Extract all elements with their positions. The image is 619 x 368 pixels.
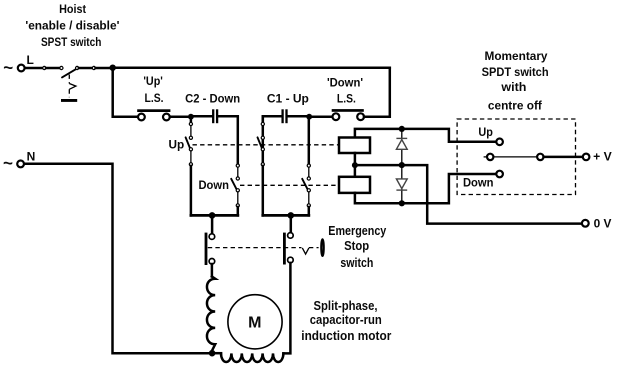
svg-text:SPST switch: SPST switch [41,35,102,49]
svg-text:M: M [248,315,261,332]
svg-text:SPDT switch: SPDT switch [482,65,549,79]
wire C1 cell top left [263,116,282,164]
node E junction under C1 cell [288,212,295,219]
node D junction at C1 top right [306,114,312,120]
wire top L rail [113,66,390,69]
svg-text:Emergency: Emergency [328,224,386,238]
emergency stop dashed linkage [208,248,319,255]
relay coil K2 [339,177,370,193]
wire node A down to Up limit switch [113,68,138,117]
contact K2 Down (right branch of C2 cell) [231,164,239,215]
node G diode top junction [399,126,405,132]
svg-text:C1 - Up: C1 - Up [267,91,309,105]
svg-text:induction motor: induction motor [301,329,391,343]
svg-text:Up: Up [168,138,184,152]
node F junction between coils [352,162,358,168]
wire C1 to node D [288,115,310,118]
svg-text:'Up': 'Up' [143,74,163,88]
wire middle rail to 0V [355,165,582,224]
limit switch 'Down' L.S. [332,109,364,120]
diode D2 [396,165,407,203]
mechanical dashed link Down contacts to coil K2 [240,184,339,186]
svg-text:L: L [27,53,34,67]
wire auxiliary winding to right riser [283,263,290,354]
node I diode bottom junction [399,200,405,206]
svg-text:Momentary: Momentary [485,49,548,63]
svg-text:Down: Down [198,178,229,192]
svg-text:Split-phase,: Split-phase, [314,299,378,313]
emergency stop left contact [205,233,215,265]
svg-text:Hoist: Hoist [59,2,86,16]
SPDT Down contact terminal [496,171,503,178]
inductor auxiliary winding (horizontal) [221,353,283,362]
svg-text:C2 - Down: C2 - Down [185,92,240,106]
wire bottom rail of C1 cell [263,214,309,217]
svg-text:+ V: + V [593,149,612,163]
capacitor C2 [213,109,217,123]
SPDT pole lever [484,154,544,160]
svg-text:switch: switch [340,256,373,270]
wire node J to auxiliary winding [212,352,221,355]
inductor main winding (vertical) [207,277,215,354]
wire node C down to emergency stop left contact [211,215,214,234]
svg-text:~: ~ [3,58,13,77]
contact K2 Down (right branch of C1 cell) [302,117,310,216]
svg-text:'Down': 'Down' [327,76,363,90]
wire Down L.S. up to top rail [364,68,390,117]
label 'Up' L.S. [143,74,163,105]
node +V terminal [583,149,612,163]
SPDT dashed enclosure [457,119,575,195]
S1 anchor bar [61,99,77,102]
svg-text:Up: Up [478,125,493,139]
node C junction under C2 cell [209,212,216,219]
mechanical dashed link Up contacts to coil K1 [193,144,340,146]
svg-text:with: with [500,80,526,94]
node N (neutral terminal) [3,150,35,173]
svg-text:Down: Down [463,176,494,190]
contact K1 Up (left branch of C2 cell) [186,117,193,216]
node A junction on L rail [110,65,116,71]
label Emergency Stop switch [328,224,386,270]
motor M1 circle [228,295,282,349]
wire coil K2 bottom rail to Down feed [355,174,497,203]
capacitor C1 [283,109,287,123]
node H diode middle junction [399,162,405,168]
wire S1 to node A [96,67,113,70]
wire node D to Down limit switch [309,115,332,118]
svg-text:centre off: centre off [488,98,543,112]
switch S1 (hoist enable/disable SPST) [43,66,96,77]
svg-text:N: N [27,150,36,164]
label 'Down' L.S. [327,76,363,106]
S1 actuator dashed link with detent [69,75,76,98]
wire bottom rail of C2 cell [191,214,238,217]
svg-text:Stop: Stop [344,239,369,253]
emergency stop right contact [283,233,293,265]
node J motor bottom junction [209,350,216,357]
svg-text:~: ~ [3,154,13,173]
svg-text:L.S.: L.S. [337,91,356,105]
label: Hoist enable/disable SPST switch annotation [25,2,119,49]
wire between coils [354,153,357,177]
node B junction [188,114,194,120]
svg-text:capacitor-run: capacitor-run [310,313,382,327]
wire node B to capacitor C2 [191,115,212,118]
svg-text:0 V: 0 V [594,216,612,230]
node L (AC line terminal) [3,53,34,77]
wire C2 to right branch corner [218,116,238,164]
relay coil K1 [339,138,370,154]
diode D1 [396,129,407,165]
limit switch 'Up' L.S. [137,109,170,120]
wire Up L.S. to node B [170,115,191,118]
label Momentary SPDT switch with centre off [482,49,549,112]
svg-text:'enable / disable': 'enable / disable' [25,18,119,32]
wire L terminal to switch S1 [25,67,43,70]
svg-text:L.S.: L.S. [145,91,164,105]
emergency stop mushroom actuator [321,239,323,256]
SPDT Up contact terminal [496,139,503,146]
wire N rail down and across bottom [24,164,212,354]
wire emergency stop left to main winding [211,264,214,277]
wire relay top rail [355,129,497,142]
label Split-phase capacitor-run induction motor [301,299,391,343]
wire node E down to emergency stop right contact [290,215,293,232]
contact K1 Up (left branch of C1 cell) [258,117,265,216]
node 0V terminal [582,216,612,230]
wire pole to +V terminal [544,156,583,159]
